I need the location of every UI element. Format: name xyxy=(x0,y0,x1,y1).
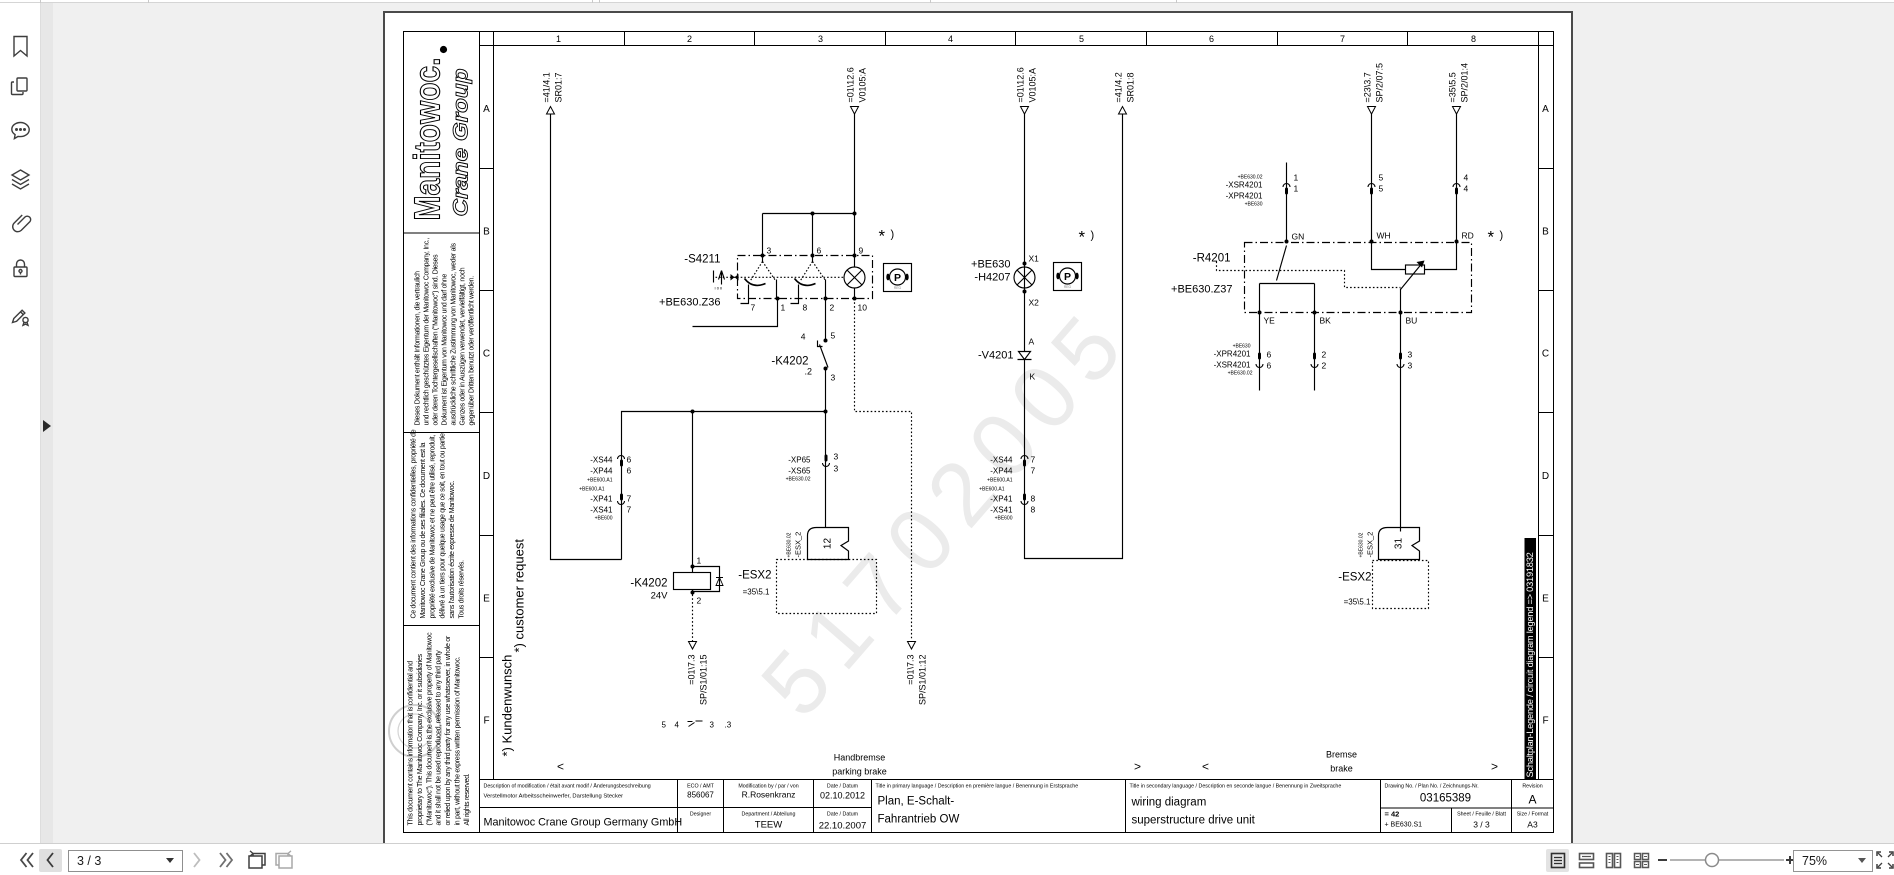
svg-text:Size / Format: Size / Format xyxy=(1517,812,1549,818)
svg-text:7: 7 xyxy=(751,303,756,313)
svg-text:-XS41: -XS41 xyxy=(990,506,1013,515)
svg-text:5: 5 xyxy=(662,721,667,730)
svg-text:-XSR4201: -XSR4201 xyxy=(1214,361,1251,370)
svg-text:-ESX_2: -ESX_2 xyxy=(794,532,803,558)
svg-text:1: 1 xyxy=(1294,184,1299,194)
svg-text:=35\5.1: =35\5.1 xyxy=(743,588,770,597)
svg-text:2: 2 xyxy=(1322,350,1327,360)
svg-text:-XSR4201: -XSR4201 xyxy=(1226,181,1263,190)
svg-text:I 0 II: I 0 II xyxy=(715,286,723,291)
svg-text:B: B xyxy=(483,226,490,237)
svg-text:P: P xyxy=(1064,271,1071,283)
svg-text:Dieses Dokument enthält Inform: Dieses Dokument enthält Informationen, d… xyxy=(415,271,422,426)
svg-text:REG: REG xyxy=(894,286,902,290)
svg-text:Tous droits réservés.: Tous droits réservés. xyxy=(459,560,466,619)
svg-text:Title in primary language / De: Title in primary language / Description … xyxy=(876,784,1079,790)
svg-text:8: 8 xyxy=(1031,494,1036,504)
svg-text:Drawing No. / Plan No. / Zeich: Drawing No. / Plan No. / Zeichnungs-Nr. xyxy=(1385,784,1479,790)
svg-text:=01\7.3: =01\7.3 xyxy=(687,655,697,685)
svg-text:Revision: Revision xyxy=(1522,784,1542,790)
svg-text:Plan, E-Schalt-: Plan, E-Schalt- xyxy=(878,796,955,808)
svg-text:4: 4 xyxy=(1464,173,1469,183)
svg-text:parking brake: parking brake xyxy=(832,767,887,777)
svg-text:RD: RD xyxy=(1462,231,1474,241)
svg-text:D: D xyxy=(483,471,490,482)
svg-text:V0105:A: V0105:A xyxy=(1028,68,1038,103)
svg-text:REG: REG xyxy=(1064,285,1072,289)
svg-text:4: 4 xyxy=(948,34,953,44)
svg-text:+BE600.A1: +BE600.A1 xyxy=(979,487,1005,493)
svg-text:3: 3 xyxy=(834,452,839,462)
svg-text:=23\3.7: =23\3.7 xyxy=(1363,72,1373,102)
svg-text:+BE600: +BE600 xyxy=(595,516,613,522)
svg-text:4: 4 xyxy=(1464,184,1469,194)
svg-text:K: K xyxy=(1030,372,1036,382)
svg-text:3: 3 xyxy=(834,464,839,474)
svg-text:+BE630.02: +BE630.02 xyxy=(786,477,811,483)
svg-text:.3: .3 xyxy=(725,721,732,730)
svg-text:BK: BK xyxy=(1320,316,1332,326)
svg-text:3: 3 xyxy=(1408,350,1413,360)
svg-text:TEEW: TEEW xyxy=(755,820,782,831)
svg-text:31: 31 xyxy=(1394,538,1405,550)
svg-text:Title in secondary language /: Title in secondary language / Descriptio… xyxy=(1130,784,1342,790)
svg-text:-XPR4201: -XPR4201 xyxy=(1214,350,1251,359)
svg-text:Department / Abteilung: Department / Abteilung xyxy=(742,812,796,818)
svg-text:P: P xyxy=(894,272,901,284)
svg-text:Manitowoc.: Manitowoc. xyxy=(407,58,448,221)
svg-text:Manitowoc Crane Group Germany: Manitowoc Crane Group Germany GmbH xyxy=(484,817,683,829)
svg-text:C: C xyxy=(483,349,490,360)
svg-text:6: 6 xyxy=(1267,350,1272,360)
svg-text:SR01:8: SR01:8 xyxy=(1126,72,1136,102)
svg-text:1: 1 xyxy=(1294,173,1299,183)
svg-text:SR01:7: SR01:7 xyxy=(554,72,564,102)
svg-text:+BE630: +BE630 xyxy=(1233,344,1251,350)
svg-text:-XP44: -XP44 xyxy=(590,467,613,476)
svg-text:7: 7 xyxy=(1031,455,1036,465)
svg-text:+BE630.02: +BE630.02 xyxy=(787,532,793,557)
svg-text:YE: YE xyxy=(1264,316,1276,326)
svg-text:=41/4.1: =41/4.1 xyxy=(542,72,552,102)
svg-text:7: 7 xyxy=(627,494,632,504)
svg-text:Sheet / Feuille / Blatt: Sheet / Feuille / Blatt xyxy=(1457,812,1506,818)
svg-text:*) customer request: *) customer request xyxy=(512,539,527,653)
svg-text:A: A xyxy=(1528,793,1536,807)
svg-text:.2: .2 xyxy=(805,367,813,377)
svg-text:7: 7 xyxy=(1340,34,1345,44)
svg-text:Designer: Designer xyxy=(690,812,711,818)
svg-text:B: B xyxy=(1542,226,1549,237)
svg-text:sans l'autorisation écrite exp: sans l'autorisation écrite expresse de M… xyxy=(449,481,456,619)
svg-text:10: 10 xyxy=(858,303,868,313)
svg-text:3: 3 xyxy=(767,246,772,256)
svg-text:2: 2 xyxy=(830,303,835,313)
svg-text:02.10.2012: 02.10.2012 xyxy=(820,791,865,801)
svg-text:*: * xyxy=(1079,228,1086,247)
svg-text:A: A xyxy=(483,104,490,115)
svg-text:): ) xyxy=(1500,230,1504,242)
svg-text:1: 1 xyxy=(781,303,786,313)
svg-text:7: 7 xyxy=(627,505,632,515)
svg-text:E: E xyxy=(483,593,490,604)
svg-text:ausdrückliche schriftliche Zus: ausdrückliche schriftliche Zustimmung vo… xyxy=(451,243,458,426)
svg-text:Date / Datum: Date / Datum xyxy=(827,812,859,818)
svg-text:1: 1 xyxy=(556,34,561,44)
svg-text:wiring diagram: wiring diagram xyxy=(1131,797,1207,809)
svg-text:-H4207: -H4207 xyxy=(974,272,1010,284)
svg-text:+BE600: +BE600 xyxy=(995,516,1013,522)
svg-text:>: > xyxy=(1491,760,1498,774)
svg-text:+BE630.02: +BE630.02 xyxy=(1238,175,1263,181)
svg-text:-R4201: -R4201 xyxy=(1193,253,1231,265)
svg-text:Ganzes oder in Auszügen verwen: Ganzes oder in Auszügen verwendet, vervi… xyxy=(460,267,467,425)
svg-text:24V: 24V xyxy=(651,591,669,602)
svg-text:-K4202: -K4202 xyxy=(771,356,808,368)
svg-text:Dokument ist Eigentum von Man: Dokument ist Eigentum von Manitowoc und … xyxy=(442,274,449,426)
svg-text:Schaltplan-Legende / circuit d: Schaltplan-Legende / circuit diagram leg… xyxy=(1525,552,1535,777)
svg-text:gegenüber Dritten benutzt oder: gegenüber Dritten benutzt oder veröffent… xyxy=(469,276,476,426)
svg-text:-XP41: -XP41 xyxy=(590,495,613,504)
svg-text:SP/S1/01:15: SP/S1/01:15 xyxy=(699,655,709,706)
svg-text:C: C xyxy=(1542,349,1549,360)
svg-text:6: 6 xyxy=(817,246,822,256)
svg-text:): ) xyxy=(1091,230,1095,242)
svg-text:proprietary to The Manitowoc C: proprietary to The Manitowoc Company, In… xyxy=(417,653,424,825)
svg-text:+BE630.02: +BE630.02 xyxy=(1359,532,1365,557)
svg-text:+BE600.A1: +BE600.A1 xyxy=(987,478,1013,484)
svg-text:+BE630.02: +BE630.02 xyxy=(1228,371,1253,377)
svg-text:): ) xyxy=(891,229,895,241)
svg-text:-ESX_2: -ESX_2 xyxy=(1366,532,1375,558)
svg-text:ECO / AMT: ECO / AMT xyxy=(687,784,715,790)
svg-text:Verstellmotor Arbeitsscheinwer: Verstellmotor Arbeitsscheinwerfer, Darst… xyxy=(484,794,624,800)
svg-text:All rights reserved.: All rights reserved. xyxy=(464,773,471,825)
svg-text:Description of modification /: Description of modification / était avan… xyxy=(484,783,651,790)
svg-text:SP/S1/01:12: SP/S1/01:12 xyxy=(918,655,928,706)
svg-text:SP/2/01:4: SP/2/01:4 xyxy=(1460,63,1470,103)
svg-text:R.Rosenkranz: R.Rosenkranz xyxy=(742,790,796,800)
svg-text:<: < xyxy=(1202,760,1209,774)
svg-text:X1: X1 xyxy=(1029,254,1040,264)
svg-text:3: 3 xyxy=(818,34,823,44)
svg-text:SP/2/07:5: SP/2/07:5 xyxy=(1375,63,1385,103)
svg-text:WH: WH xyxy=(1377,231,1391,241)
svg-text:5: 5 xyxy=(1379,184,1384,194)
svg-text:-ESX2: -ESX2 xyxy=(1338,572,1371,584)
svg-text:*: * xyxy=(1488,228,1495,247)
svg-text:4: 4 xyxy=(801,332,806,342)
svg-text:7: 7 xyxy=(1031,466,1036,476)
svg-text:1: 1 xyxy=(697,556,702,566)
svg-text:+BE600.A1: +BE600.A1 xyxy=(579,487,605,493)
svg-text:Crane Group: Crane Group xyxy=(450,68,473,216)
svg-text:A3: A3 xyxy=(1527,820,1538,830)
svg-text:oder deren Tochtergesellschaft: oder deren Tochtergesellschaften ("Manit… xyxy=(433,254,440,426)
svg-text:-XS44: -XS44 xyxy=(990,456,1013,465)
svg-text:X2: X2 xyxy=(1029,298,1040,308)
svg-text:A: A xyxy=(1029,337,1035,347)
svg-text:>: > xyxy=(1134,760,1141,774)
svg-text:and it shall not be used repro: and it shall not be used reproduced, rel… xyxy=(436,650,443,826)
svg-text:3: 3 xyxy=(1408,361,1413,371)
svg-text:GN: GN xyxy=(1292,232,1305,242)
svg-text:-XS41: -XS41 xyxy=(590,506,613,515)
svg-text:und rechtlich geschütztes Eige: und rechtlich geschütztes Eigentum der M… xyxy=(424,238,431,426)
svg-text:V0105:A: V0105:A xyxy=(858,68,868,103)
svg-text:6: 6 xyxy=(1209,34,1214,44)
svg-text:Manitowoc Crane Group ou de se: Manitowoc Crane Group ou de ses filiales… xyxy=(420,442,427,618)
svg-text:8: 8 xyxy=(1031,505,1036,515)
svg-text:Bremse: Bremse xyxy=(1326,750,1357,760)
svg-text:+ BE630.S1: + BE630.S1 xyxy=(1385,822,1423,829)
svg-text:3: 3 xyxy=(831,373,836,383)
svg-text:22.10.2007: 22.10.2007 xyxy=(819,821,867,832)
svg-text:4: 4 xyxy=(675,721,680,730)
svg-text:propriété exclusive de Manitow: propriété exclusive de Manitowoc et ne p… xyxy=(430,435,437,619)
svg-text:=35\5.1: =35\5.1 xyxy=(1344,598,1371,607)
svg-text:2: 2 xyxy=(687,34,692,44)
svg-text:Handbremse: Handbremse xyxy=(834,753,886,763)
svg-text:-XP41: -XP41 xyxy=(990,495,1013,504)
svg-text:+BE630.Z36: +BE630.Z36 xyxy=(659,297,720,309)
svg-text:5: 5 xyxy=(831,331,836,341)
svg-text:=41/4.2: =41/4.2 xyxy=(1114,72,1124,102)
svg-text:brake: brake xyxy=(1330,764,1353,774)
svg-text:or relied upon by any third pa: or relied upon by any third party for an… xyxy=(445,635,452,825)
svg-text:This document contains informa: This document contains information that … xyxy=(408,661,415,826)
svg-text:+BE630.Z37: +BE630.Z37 xyxy=(1171,284,1232,296)
svg-text:A: A xyxy=(1542,104,1549,115)
svg-text:-XP65: -XP65 xyxy=(788,456,811,465)
svg-text:<: < xyxy=(557,760,564,774)
svg-text:F: F xyxy=(1542,716,1548,727)
svg-text:2: 2 xyxy=(697,596,702,606)
svg-text:=01\12.6: =01\12.6 xyxy=(1016,67,1026,102)
svg-text:+BE630: +BE630 xyxy=(971,259,1010,271)
svg-text:Ce document contient des infor: Ce document contient des informations co… xyxy=(411,429,418,618)
svg-text:-XS65: -XS65 xyxy=(788,467,811,476)
svg-text:12: 12 xyxy=(823,538,834,550)
svg-text:=01\7.3: =01\7.3 xyxy=(906,655,916,685)
svg-text:=35\5.5: =35\5.5 xyxy=(1448,72,1458,102)
svg-text:6: 6 xyxy=(627,455,632,465)
svg-text:9: 9 xyxy=(859,246,864,256)
svg-text:5: 5 xyxy=(1379,173,1384,183)
svg-text:F: F xyxy=(483,716,489,727)
svg-text:-XS44: -XS44 xyxy=(590,456,613,465)
svg-text:("Manitowoc"). This document i: ("Manitowoc"). This document is the excl… xyxy=(426,632,433,826)
svg-text:-XP44: -XP44 xyxy=(990,467,1013,476)
svg-text:BU: BU xyxy=(1406,316,1418,326)
svg-text:+BE600.A1: +BE600.A1 xyxy=(587,478,613,484)
svg-text:5: 5 xyxy=(1079,34,1084,44)
svg-text:Date / Datum: Date / Datum xyxy=(827,784,859,790)
svg-text:+BE630: +BE630 xyxy=(1245,202,1263,208)
svg-text:-ESX2: -ESX2 xyxy=(738,570,771,582)
svg-text:E: E xyxy=(1542,593,1549,604)
svg-text:2: 2 xyxy=(1322,361,1327,371)
svg-text:*) Kundenwunsch: *) Kundenwunsch xyxy=(500,655,515,757)
svg-text:= 42: = 42 xyxy=(1385,810,1400,819)
svg-text:3 / 3: 3 / 3 xyxy=(1473,820,1490,830)
svg-text:in part, without the express w: in part, without the express written per… xyxy=(455,656,462,825)
svg-text:856067: 856067 xyxy=(687,791,714,800)
svg-text:délivré à un tiers pour quelqu: délivré à un tiers pour quelque usage qu… xyxy=(439,431,446,618)
svg-text:6: 6 xyxy=(627,466,632,476)
svg-text:D: D xyxy=(1542,471,1549,482)
svg-text:Fahrantrieb OW: Fahrantrieb OW xyxy=(878,814,960,826)
svg-text:8: 8 xyxy=(803,303,808,313)
svg-text:superstructure drive unit: superstructure drive unit xyxy=(1132,815,1256,827)
svg-text:-S4211: -S4211 xyxy=(684,254,720,266)
svg-text:=01\12.6: =01\12.6 xyxy=(846,67,856,102)
svg-text:6: 6 xyxy=(1267,361,1272,371)
svg-text:3: 3 xyxy=(710,721,715,730)
svg-text:-XPR4201: -XPR4201 xyxy=(1226,192,1263,201)
svg-text:8: 8 xyxy=(1471,34,1476,44)
svg-text:*: * xyxy=(879,227,886,246)
svg-text:-V4201: -V4201 xyxy=(978,350,1013,362)
svg-text:-K4202: -K4202 xyxy=(630,578,667,590)
svg-text:03165389: 03165389 xyxy=(1420,793,1471,805)
